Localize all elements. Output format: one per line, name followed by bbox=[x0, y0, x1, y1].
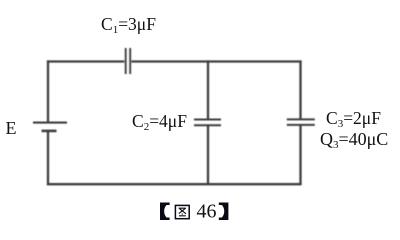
svg-text:46: 46 bbox=[197, 201, 217, 223]
svg-text:C1=3μF: C1=3μF bbox=[101, 14, 156, 36]
wire bottom (full width) bbox=[47, 183, 302, 185]
wire left branch lower (battery - plate down to bottom wire) bbox=[47, 132, 49, 186]
caption left lenticular bracket bbox=[160, 203, 170, 221]
caption right lenticular bracket bbox=[219, 203, 229, 221]
svg-text:E: E bbox=[6, 118, 17, 138]
wire middle branch upper (top wire down to C2) bbox=[207, 60, 209, 118]
capacitor C3 top plate bbox=[287, 118, 315, 120]
wire top-right segment (C1 right plate to node B) bbox=[132, 60, 302, 62]
capacitor C3 bottom plate bbox=[287, 124, 315, 126]
capacitor C2 top plate bbox=[194, 119, 221, 121]
battery E negative plate (short) bbox=[42, 130, 57, 133]
wire top-left segment (node A to C1 left plate) bbox=[47, 60, 124, 62]
wire right branch lower (C3 down to bottom wire) bbox=[299, 126, 301, 185]
wire middle branch lower (C2 down to bottom wire) bbox=[207, 126, 209, 184]
capacitor C2 bottom plate bbox=[194, 124, 221, 126]
svg-text:Q3=40μC: Q3=40μC bbox=[320, 129, 388, 151]
caption CJK glyph 图 (drawn) bbox=[175, 205, 189, 218]
capacitor C1 left plate bbox=[125, 48, 127, 74]
svg-text:C3=2μF: C3=2μF bbox=[326, 108, 381, 130]
svg-text:C2=4μF: C2=4μF bbox=[132, 111, 187, 133]
wire right branch upper (top wire down to C3) bbox=[299, 60, 301, 118]
battery E positive plate (long) bbox=[33, 122, 67, 124]
capacitor C1 right plate bbox=[129, 48, 131, 74]
wire left branch upper (top wire down to battery + plate) bbox=[47, 60, 49, 121]
